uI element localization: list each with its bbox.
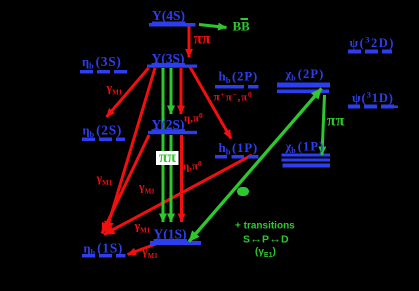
green marker blob on diagonal <box>237 187 249 196</box>
level Y(3S) line <box>147 65 197 68</box>
svg-text:ππ: ππ <box>194 31 211 48</box>
green arrow Y(3S) to Y(2S) <box>170 68 173 114</box>
level eta_b(1S) dashed line <box>82 254 126 258</box>
level chi_b(2P) lines <box>277 83 330 88</box>
arrow Y(3S) to Y(2S) eta pi0 <box>180 68 183 114</box>
level chi_b(1P) lines <box>282 154 331 157</box>
level eta_b(3S) dashed line <box>80 70 127 74</box>
svg-text:S↔P↔D: S↔P↔D <box>243 232 289 246</box>
arrow Y(4S) to BB <box>199 25 227 28</box>
level eta_b(2S) dashed line <box>82 138 125 142</box>
level Y(2S) line <box>148 131 197 134</box>
arrow Y(3S) to eta_b(2S) gamma M1 <box>107 68 149 117</box>
svg-text:ηb(2S): ηb(2S) <box>83 123 123 140</box>
svg-text:ψ(31D): ψ(31D) <box>352 90 394 106</box>
svg-text:hb(2P): hb(2P) <box>219 69 258 86</box>
arrow h_b(1P) to eta_b(1S) gamma M1 <box>104 155 252 235</box>
green arrow Y(2S) to Y(1S) <box>170 135 173 222</box>
green double arrow Y(1S) to chi_b(2P) <box>189 89 322 242</box>
svg-text:Υ(4S): Υ(4S) <box>152 8 185 23</box>
svg-text:BB: BB <box>233 19 251 34</box>
svg-text:ηb(1S): ηb(1S) <box>84 241 124 258</box>
arrow Y(4S) to Y(3S) pipi <box>188 26 191 58</box>
svg-text:+ transitions: + transitions <box>235 221 295 232</box>
arrow Y(1S) to eta_b(1S) gamma M1 <box>128 244 158 255</box>
arrow Y(3S) to eta_b(1S) gamma M1 <box>106 68 155 232</box>
green arrow Y(3S) to Y(1S) left <box>162 68 165 222</box>
level psi(2D) dashed line <box>348 50 392 54</box>
green arrow chi_b(2P) to chi_b(1P) pipi <box>322 95 325 155</box>
svg-text:ηb(3S): ηb(3S) <box>82 54 122 71</box>
level h_b(1P) dashed line <box>215 155 259 159</box>
white box for pipi label <box>156 151 179 165</box>
svg-text:χb(1P): χb(1P) <box>285 140 325 156</box>
svg-text:χb(2P): χb(2P) <box>285 67 325 83</box>
svg-text:ψ(32D): ψ(32D) <box>350 35 395 51</box>
svg-text:ππ: ππ <box>159 149 176 166</box>
level h_b(2P) dashed line <box>215 85 259 89</box>
arrow Y(3S) to h_b(1P) <box>190 67 231 139</box>
arrow Y(2S) to eta_b(1S) gamma M1 <box>102 135 149 234</box>
svg-text:ππ: ππ <box>327 113 345 130</box>
svg-text:hb(1P): hb(1P) <box>219 140 258 157</box>
level Y(1S) line <box>150 241 201 245</box>
level Y(4S) line <box>149 23 196 27</box>
arrow Y(2S) to Y(1S) eta pi0 <box>180 135 183 222</box>
level psi(1D) dashed line <box>348 105 398 109</box>
